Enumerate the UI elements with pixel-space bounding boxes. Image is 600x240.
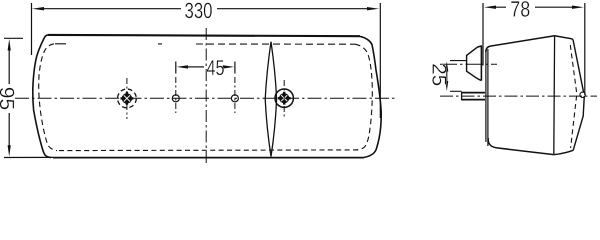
side view housing top edge [486, 36, 555, 52]
side view housing back edge [485, 50, 487, 142]
side view joint line [553, 36, 556, 155]
stud B1 [172, 62, 179, 114]
side view stud [462, 92, 485, 100]
stud B2 [231, 62, 238, 114]
svg-text:25: 25 [428, 63, 450, 86]
plug centerline [440, 63, 497, 65]
side view lens hidden edge dashed [570, 45, 577, 148]
dimension 95 [0, 38, 53, 157]
side view main centerline [440, 95, 597, 97]
screw S1 [118, 78, 137, 119]
side view lens top edge [555, 36, 574, 41]
lens divider diamond [265, 42, 276, 157]
side view plug [467, 45, 482, 80]
lamp front view outline [48, 35, 360, 36]
dimension 78 [483, 0, 585, 95]
dimension 45 [177, 56, 235, 80]
side view lens right edge lower [573, 96, 584, 150]
svg-text:95: 95 [0, 87, 18, 111]
dimension 25 [428, 61, 462, 91]
plug top extension line [450, 60, 467, 62]
screw S2 [275, 80, 293, 117]
side view lens right edge upper [573, 41, 584, 96]
side view lens bottom edge [554, 150, 573, 154]
svg-text:78: 78 [510, 0, 530, 22]
dimension 330 [32, 0, 381, 118]
svg-text:45: 45 [207, 56, 225, 80]
side view lens apex circle [580, 92, 585, 97]
vertical centerline front view [205, 28, 207, 164]
side view housing bottom edge [488, 138, 554, 155]
svg-text:330: 330 [185, 0, 213, 23]
horizontal centerline front view [15, 97, 397, 99]
lens hidden edge dashed [55, 43, 162, 45]
